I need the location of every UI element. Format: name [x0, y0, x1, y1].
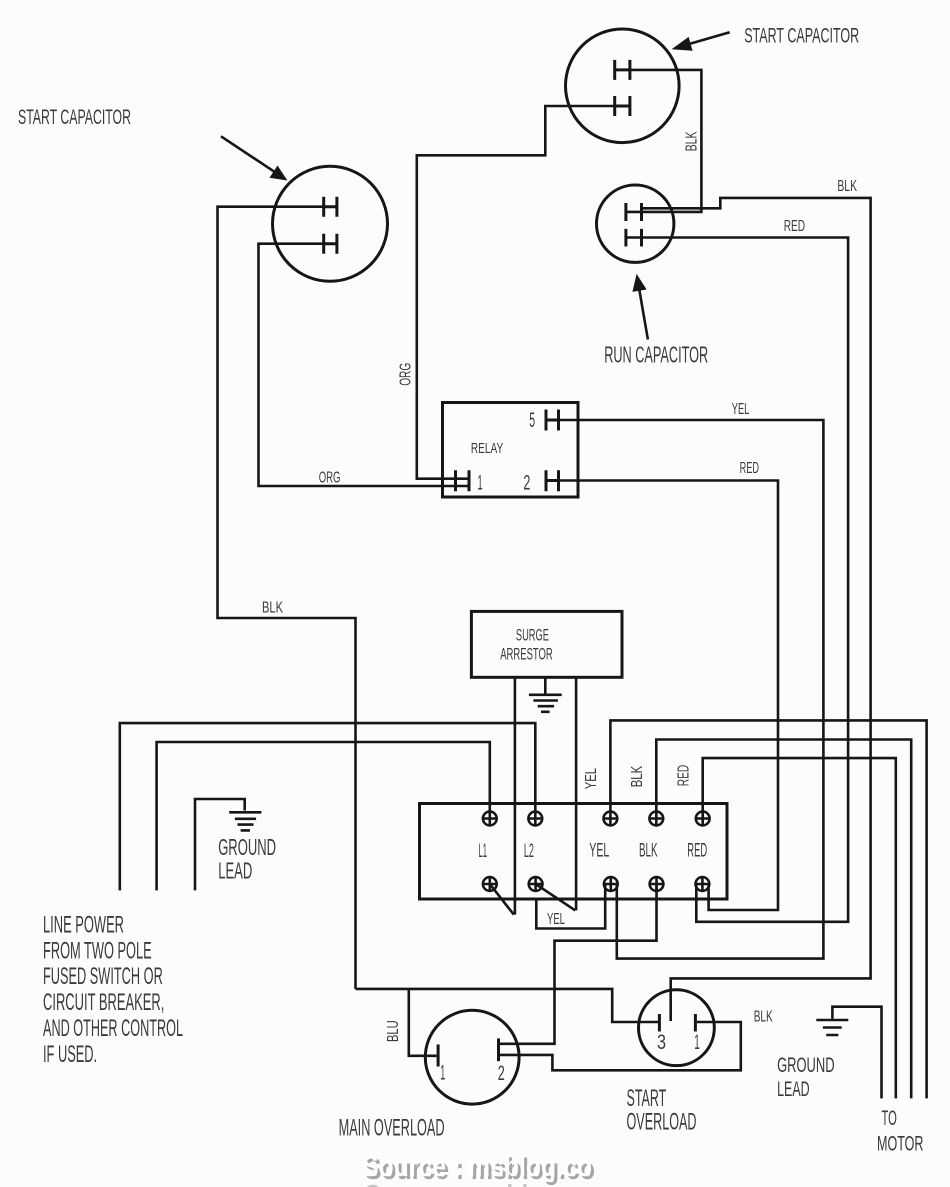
svg-text:YEL: YEL: [732, 401, 750, 418]
ground symbol right: [816, 1020, 848, 1035]
wire ORG: C1 lower terminal left and down to relay terminal 1: [417, 106, 615, 479]
svg-text:Source : msblog.co: Source : msblog.co: [365, 1180, 595, 1187]
wire: run capacitor top terminal to BLK down-run to start overload terminal 3: [642, 198, 871, 1021]
L1 switch blade: [490, 884, 514, 915]
svg-text:RELAY: RELAY: [471, 440, 503, 457]
wire: start overload terminal 1 loop to main overload terminal 2: [500, 1022, 741, 1070]
svg-text:ARRESTOR: ARRESTOR: [500, 645, 553, 664]
svg-text:START CAPACITOR: START CAPACITOR: [744, 25, 859, 48]
arrow to start capacitor C2: [221, 136, 287, 180]
terminal screw BLK bottom: [650, 877, 664, 891]
svg-text:TO: TO: [882, 1106, 897, 1130]
svg-text:YEL: YEL: [547, 911, 565, 928]
wire ORG: C2 lower terminal left and down to relay terminal 1: [259, 244, 470, 486]
main overload circle: [425, 1010, 519, 1104]
svg-text:GROUND: GROUND: [777, 1054, 835, 1077]
svg-text:RUN CAPACITOR: RUN CAPACITOR: [604, 342, 708, 368]
wire YEL top screw to motor: [610, 720, 926, 1098]
wire ground lead right to motor: [832, 1007, 881, 1099]
terminal screw RED bottom: [696, 877, 710, 891]
wire ground lead left: [195, 799, 245, 890]
svg-text:L2: L2: [524, 841, 534, 862]
svg-text:YEL: YEL: [589, 841, 609, 862]
wire line power to L1 top screw: [157, 742, 490, 890]
wire line power to L2 top screw: [120, 723, 536, 890]
svg-text:CIRCUIT BREAKER,: CIRCUIT BREAKER,: [43, 989, 164, 1016]
svg-text:Source : msblog.co: Source : msblog.co: [362, 1150, 592, 1183]
wire BLK top screw to motor: [656, 740, 911, 1099]
svg-text:BLK: BLK: [684, 131, 701, 151]
svg-text:1: 1: [440, 1062, 445, 1085]
start capacitor C2 (left): [273, 166, 388, 281]
wire RED top screw to motor: [703, 758, 896, 1098]
svg-text:IF USED.: IF USED.: [43, 1041, 97, 1068]
svg-text:SURGE: SURGE: [516, 625, 549, 644]
C3 upper terminal plates: [626, 203, 642, 221]
main overload terminal 1: [437, 1045, 440, 1067]
svg-text:RED: RED: [740, 460, 759, 477]
relay terminal 2 plates: [546, 470, 559, 491]
start overload circle: [639, 990, 715, 1066]
svg-text:ORG: ORG: [398, 363, 415, 386]
relay terminal 1 plates: [456, 470, 470, 491]
relay K1 box: [443, 403, 579, 498]
L2 switch blade: [536, 884, 576, 910]
svg-text:BLK: BLK: [754, 1009, 773, 1026]
run capacitor C3: [597, 185, 674, 262]
relay terminal 5 plates: [546, 410, 559, 431]
svg-text:ORG: ORG: [319, 469, 341, 486]
start capacitor C1 (top): [566, 29, 680, 143]
start overload terminal 3: [658, 1014, 661, 1032]
wire BLU: junction down to main overload terminal 1: [409, 989, 437, 1056]
wire BLK: C2 upper terminal left, down, right, down to junction node: [218, 207, 356, 989]
C2 upper terminal plates: [324, 197, 337, 217]
wire: surge arrestor left lead down to L1 blade post: [514, 677, 517, 914]
wire: surge arrestor right lead down to L2 blade post: [575, 677, 578, 910]
svg-text:FROM TWO POLE: FROM TWO POLE: [43, 937, 152, 964]
wire YEL jumper: YEL bottom screw to L2: [536, 884, 605, 929]
svg-text:YEL: YEL: [583, 768, 600, 789]
svg-text:1: 1: [478, 471, 483, 494]
watermark Source : msblog.co: [362, 1150, 595, 1186]
wire BLK: start capacitor C1 top terminal right and down to run capacitor: [626, 70, 702, 212]
svg-text:GROUND: GROUND: [218, 834, 276, 860]
wire YEL: relay terminal 5 to YEL terminal bottom screw: [546, 420, 823, 959]
wire BLK: BLK bottom screw down-left-down to main overload terminal 2: [500, 884, 657, 1044]
watermark partial bottom row: [365, 1180, 595, 1187]
terminal screw YEL top: [604, 812, 618, 826]
wire RED: relay terminal 2 to RED terminal bottom screw: [546, 481, 778, 911]
svg-text:LEAD: LEAD: [218, 858, 252, 884]
svg-text:BLK: BLK: [262, 600, 283, 617]
svg-text:2: 2: [523, 471, 530, 494]
svg-text:FUSED SWITCH OR: FUSED SWITCH OR: [43, 963, 163, 990]
surge arrestor box: [471, 611, 622, 677]
terminal strip box: [420, 804, 728, 900]
svg-text:L1: L1: [479, 841, 488, 862]
svg-text:2: 2: [498, 1062, 505, 1085]
wires will be inserted here: [120, 70, 927, 1099]
svg-text:RED: RED: [687, 841, 707, 862]
terminal screw L1 top: [483, 812, 497, 826]
start overload terminal 1: [694, 1014, 697, 1032]
svg-text:3: 3: [657, 1031, 666, 1054]
C3 lower terminal plates: [626, 229, 642, 247]
terminal screw BLK top: [649, 812, 663, 826]
C1 lower terminal plates: [615, 96, 630, 116]
svg-text:AND OTHER CONTROL: AND OTHER CONTROL: [43, 1015, 183, 1042]
svg-text:BLK: BLK: [639, 841, 658, 862]
surge arrestor ground: [529, 677, 562, 712]
terminal screw L1 bottom: [483, 877, 497, 891]
C2 lower terminal plates: [324, 234, 337, 254]
svg-text:BLK: BLK: [629, 766, 646, 788]
C1 upper terminal plates: [615, 60, 630, 80]
wire RED: run capacitor lower terminal to RED terminal bottom screw: [626, 238, 848, 922]
main overload terminal 2: [497, 1038, 500, 1061]
svg-text:MOTOR: MOTOR: [877, 1131, 924, 1155]
svg-text:RED: RED: [675, 765, 692, 786]
terminal screw YEL bottom: [604, 877, 618, 891]
ground symbol left: [229, 812, 261, 830]
svg-text:START CAPACITOR: START CAPACITOR: [18, 106, 131, 129]
svg-text:BLK: BLK: [837, 178, 857, 195]
svg-text:RED: RED: [784, 218, 805, 235]
terminal screw L2 bottom: [529, 877, 543, 891]
svg-text:LEAD: LEAD: [777, 1078, 810, 1101]
svg-text:BLU: BLU: [385, 1020, 402, 1042]
svg-text:MAIN OVERLOAD: MAIN OVERLOAD: [339, 1115, 445, 1142]
terminal screw RED top: [696, 812, 710, 826]
arrow to start capacitor C1: [672, 32, 730, 51]
svg-text:1: 1: [694, 1031, 700, 1054]
arrow to run capacitor: [632, 274, 648, 340]
svg-text:5: 5: [529, 409, 535, 432]
svg-text:OVERLOAD: OVERLOAD: [627, 1108, 697, 1135]
wire BLK: junction run to start overload terminal 3: [356, 989, 659, 1022]
svg-text:LINE POWER: LINE POWER: [43, 911, 124, 938]
terminal screw L2 top: [528, 812, 542, 826]
